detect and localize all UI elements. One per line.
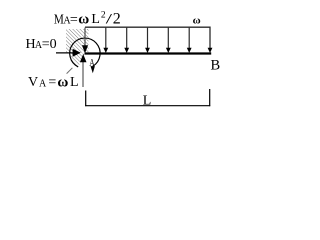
load line (top of UDL): [85, 27, 210, 48]
svg-text:ω: ω: [193, 15, 201, 27]
label H_A = 0: [26, 37, 57, 52]
dimension line L: [85, 89, 210, 106]
V_A arrow: [80, 54, 87, 87]
svg-text:=: =: [70, 13, 78, 28]
UDL arrow 6: [187, 28, 192, 53]
stray hatch line below support: [67, 68, 73, 74]
UDL arrow 5: [166, 28, 171, 53]
label V_A = wL: [28, 74, 79, 90]
svg-text:A: A: [89, 57, 95, 68]
UDL arrow 4: [145, 28, 150, 53]
svg-text:L: L: [91, 12, 100, 27]
UDL arrow 1 (at A): [82, 28, 88, 54]
svg-text:ω: ω: [57, 74, 68, 90]
svg-text:B: B: [211, 58, 221, 74]
moment arc arrowhead: [91, 66, 95, 73]
wall hatching at fixed support A: [60, 24, 100, 76]
UDL arrow 7 (at B): [208, 48, 213, 53]
svg-text:ω: ω: [78, 12, 89, 28]
svg-text:0: 0: [50, 37, 57, 52]
label M_A = wL^2/2: [54, 10, 121, 27]
svg-text:L: L: [70, 75, 79, 90]
svg-text:M: M: [54, 11, 64, 26]
UDL arrow 2: [103, 28, 108, 53]
svg-text:2: 2: [113, 10, 121, 27]
svg-text:=: =: [42, 37, 50, 52]
svg-text:=: =: [48, 75, 56, 90]
svg-text:L: L: [143, 93, 152, 108]
H_A arrow: [56, 49, 81, 57]
beam AB: [85, 52, 212, 54]
svg-text:A: A: [39, 78, 47, 89]
svg-text:V: V: [28, 75, 38, 90]
moment arc M_A: [70, 38, 100, 67]
UDL arrow 3: [124, 28, 129, 53]
